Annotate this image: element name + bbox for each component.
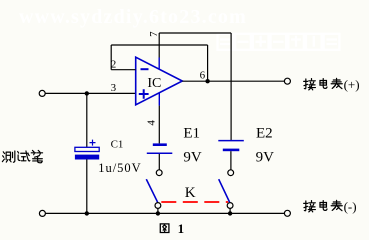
svg-text:E2: E2 [256,126,273,142]
value label 9V (E2) [256,150,275,166]
switch K pole 1 bottom contact [155,203,161,209]
label 接电表(-) [304,199,357,214]
svg-text:6: 6 [200,70,206,82]
terminal circle: meter minus [284,210,290,216]
battery E2 negative plate (short thick) [223,149,240,152]
svg-text:1u/50V: 1u/50V [98,161,142,175]
watermark www.sydzdiy.6to23.com [19,6,247,28]
battery E2 positive plate (long thin) [218,140,244,142]
label E2 [256,126,273,142]
svg-text:(-): (-) [344,199,357,214]
wire: pin 2 horizontal [111,69,135,71]
wire: pin 7 vertical [158,33,160,58]
label IC [147,76,161,91]
svg-text:C1: C1 [111,139,124,151]
terminal circle: meter plus [284,78,290,84]
caption 图 1 [160,221,184,236]
op-amp minus input mark [141,68,149,70]
wire: switch pole 2 to rail [229,208,231,213]
svg-text:3: 3 [111,82,117,94]
terminal circle: top-left test probe [39,90,45,96]
battery E1 negative plate (short thick) [153,143,167,146]
wire: E2 positive drop vertical [230,33,232,140]
pin number 6 [200,70,206,82]
svg-text:4: 4 [146,120,158,126]
label E1 [183,126,200,142]
wire: junction down to C1 [86,93,88,147]
terminal circle: bottom-left test probe [39,210,45,216]
wire: pin 4 vertical to E1 [158,106,160,144]
label 接电表(+) [304,77,360,92]
svg-text:www.sydzdiy.6to23.com: www.sydzdiy.6to23.com [19,6,247,28]
svg-text:(+): (+) [344,77,360,92]
switch K pole 2 top contact [228,170,234,176]
wire: op-amp output to meter(+) [182,80,284,82]
node junction dot pole1/rail [156,211,160,215]
wire: C1 bottom down to rail [86,159,88,213]
switch K pole 1 lever [146,179,157,202]
wire: bottom rail [45,212,284,214]
svg-text:7: 7 [148,31,160,37]
pin number 3 [111,82,117,94]
pin 4 blue stub [158,93,160,106]
label 测试笔 (test probes) [2,150,42,162]
wire: pin 3 input from left probe [45,92,135,94]
value label 1u/50V [98,161,142,175]
node junction dot at C1 top [85,91,89,95]
switch K gang link (red dashed) [161,201,228,203]
svg-text:IC: IC [147,76,161,91]
node junction dot pole2/rail [228,211,232,215]
op-amp plus input mark [139,89,149,99]
capacitor C1 (electrolytic, blue) [75,140,99,160]
switch K pole 1 top contact [156,170,162,176]
switch K pole 2 bottom contact [227,203,233,209]
value label 9V (E1) [183,150,202,166]
wire: feedback loop top horizontal [111,44,207,46]
wire: E1 bottom to switch [158,154,160,170]
wire: switch pole 1 to rail [157,208,159,213]
svg-text:9V: 9V [183,150,202,166]
pin number 2 [111,58,117,70]
label C1 [111,139,124,151]
pin number 7 (rotated) [148,31,160,37]
battery E1 positive plate (long thin) [147,152,173,154]
watermark 实用电子制作网 [218,34,340,50]
wire: positive supply top horizontal [159,32,231,34]
switch K pole 2 lever [219,179,230,202]
wire: E2 bottom to switch [230,151,232,170]
node junction dot C1 bottom on rail [85,211,89,215]
svg-text:E1: E1 [183,126,200,142]
pin 7 blue stub [158,58,160,69]
pin number 4 (rotated) [146,120,158,126]
wire: feedback loop right vertical to output [207,45,209,81]
node junction dot output/feedback [205,79,209,83]
svg-text:K: K [185,185,196,201]
svg-text:1: 1 [178,221,185,236]
wire: feedback loop left vertical [110,45,112,70]
label K [185,185,196,201]
op-amp U1 triangle [136,57,183,105]
svg-text:9V: 9V [256,150,275,166]
